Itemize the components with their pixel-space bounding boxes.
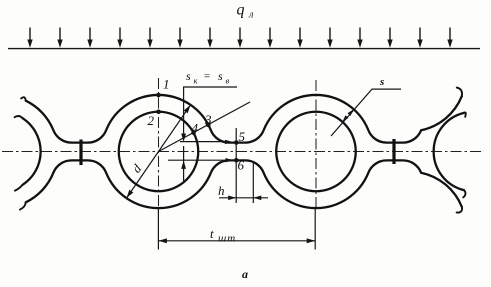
svg-text:5: 5 bbox=[239, 129, 246, 144]
svg-text:2: 2 bbox=[148, 113, 155, 128]
svg-text:s: s bbox=[218, 69, 223, 83]
svg-text:шт: шт bbox=[218, 233, 236, 245]
svg-text:а: а bbox=[242, 267, 248, 281]
svg-text:=: = bbox=[204, 71, 210, 83]
svg-text:s: s bbox=[379, 76, 384, 88]
svg-text:1: 1 bbox=[163, 77, 170, 92]
svg-text:в: в bbox=[226, 76, 230, 86]
svg-text:h: h bbox=[218, 183, 225, 198]
svg-text:s: s bbox=[186, 69, 191, 83]
svg-text:л: л bbox=[248, 10, 254, 21]
svg-text:3: 3 bbox=[204, 112, 212, 127]
svg-text:t: t bbox=[210, 226, 214, 241]
svg-text:4: 4 bbox=[192, 121, 199, 136]
svg-text:6: 6 bbox=[238, 158, 245, 173]
svg-text:q: q bbox=[237, 2, 245, 19]
